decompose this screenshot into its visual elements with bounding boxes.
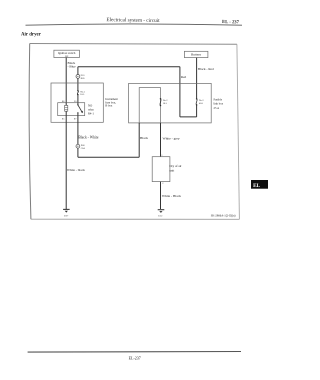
svg-text:E07: E07 [64,214,69,217]
svg-text:White - Black: White - Black [162,194,181,198]
svg-text:EL: EL [253,183,260,189]
schematic id caption [211,214,236,218]
svg-text:B box: B box [105,104,113,108]
relay K1 box [58,103,85,116]
svg-text:E12: E12 [158,214,163,217]
inner connector box [139,88,160,123]
svg-text:Black: Black [140,136,148,140]
wire connector to fuse [77,78,79,90]
wire label Red [181,75,187,79]
svg-text:Electrical system - circuit: Electrical system - circuit [106,17,160,24]
svg-text:85: 85 [62,118,65,121]
schematic frame [29,44,239,220]
svg-text:Red: Red [181,75,187,79]
fuse F1 No.5 10A [77,90,86,96]
header page number EL-237 [222,20,240,25]
svg-text:R4-1: R4-1 [88,111,94,115]
wire fuse to loop bottom [196,105,198,117]
svg-text:10A: 10A [163,102,167,105]
wire dryer to ground [160,182,162,209]
wire relay 87 down [77,116,79,145]
ignition switch box [54,50,80,58]
wire label White - grey [163,137,180,141]
relay switch contact [77,103,83,116]
svg-text:Black - White: Black - White [78,135,98,139]
footer rule [28,351,241,354]
wire label Black - White [78,135,98,139]
wire horizontal feed bus [78,66,180,68]
wire connector to corner [77,148,79,157]
svg-text:2: 2 [162,183,164,185]
section title Air dryer [21,32,42,37]
wire battery drop [196,58,198,99]
label instrument fuse box [105,97,118,108]
wire label Black [140,136,148,140]
header rule [26,24,243,25]
wire relay 85 to ground [65,116,67,209]
svg-text:Fusible: Fusible [214,97,223,101]
relay coil [65,103,68,116]
svg-text:EL-237: EL-237 [129,356,141,361]
fuse F2 fusible link [196,98,205,106]
label fusible link box [214,97,224,110]
svg-text:Battery: Battery [191,53,201,57]
svg-text:Ignition switch: Ignition switch [58,51,76,55]
fuse F3 No.2 10A [160,98,168,106]
instrument panel fuse box [51,83,103,122]
svg-text:10A: 10A [80,93,84,96]
harness outer box [129,83,212,123]
label dryer unit [169,164,181,172]
wire ignition switch to relay pin 86 [65,58,67,104]
svg-text:unit: unit [169,168,174,172]
relay pin 86 [62,100,65,103]
svg-text:Black - Red: Black - Red [198,67,214,71]
wire bus drop to connector [77,67,79,75]
svg-text:40A: 40A [199,102,203,105]
wire label White - black [67,168,85,172]
ground G2 [158,210,165,218]
svg-text:C04: C04 [81,147,86,150]
battery B1 [184,51,208,57]
svg-text:SK-2866A-1(2-D)(n): SK-2866A-1(2-D)(n) [211,214,236,218]
svg-text:Air dryer: Air dryer [21,32,42,37]
wire fuse to relay pin 30 [77,95,79,103]
ground G1 [63,209,70,217]
relay pin 30 [74,100,77,103]
side tab EL [251,180,268,189]
svg-text:87: 87 [74,118,77,121]
connector C1 [76,74,85,80]
wire riser into harness box [138,123,140,157]
wire loop bottom [180,116,197,118]
relay pin 87 [74,118,77,121]
wire fuse out to dryer unit [160,123,162,157]
wire label White - Black [162,194,181,198]
footer page number [129,356,141,361]
connector C2 [76,144,85,150]
wire label Black - Blue [68,61,77,69]
header title [106,17,160,24]
wire label Black - Red [198,67,214,71]
wire Red riser [179,67,181,117]
air dryer unit box [152,155,170,185]
wire horizontal to dryer feed [78,156,139,158]
relay pin 85 [62,118,65,121]
label NO relay R4-1 [88,104,94,116]
svg-text:25 A: 25 A [214,106,220,110]
svg-text:- Blue: - Blue [68,65,77,69]
svg-text:White - grey: White - grey [163,137,180,141]
svg-text:White - black: White - black [67,168,85,172]
svg-text:ON: ON [65,56,69,58]
svg-text:B05: B05 [81,77,86,80]
